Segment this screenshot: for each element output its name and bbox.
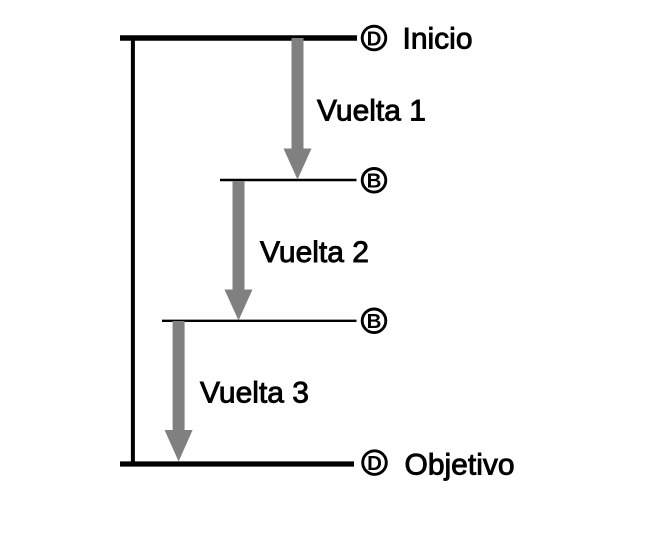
svg-text:D: D [367, 27, 382, 50]
svg-text:B: B [367, 170, 382, 193]
svg-text:B: B [367, 310, 382, 333]
svg-text:D: D [367, 452, 382, 475]
svg-text:Vuelta 1: Vuelta 1 [317, 95, 426, 128]
svg-text:Inicio: Inicio [403, 23, 473, 56]
svg-text:Objetivo: Objetivo [405, 449, 515, 482]
svg-text:Vuelta 3: Vuelta 3 [200, 377, 309, 410]
svg-text:Vuelta 2: Vuelta 2 [260, 236, 369, 269]
